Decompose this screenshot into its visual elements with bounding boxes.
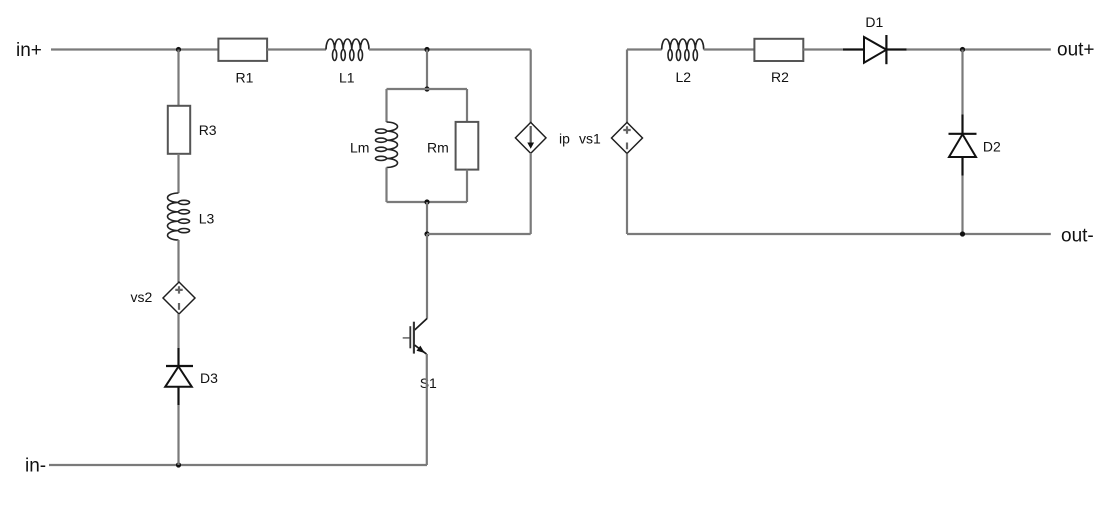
svg-text:Rm: Rm (427, 140, 449, 156)
wire Rm branch upper (466, 89, 468, 122)
resistor R1 (218, 39, 267, 61)
svg-text:in+: in+ (16, 40, 42, 61)
svg-text:D1: D1 (865, 14, 883, 30)
svg-text:out-: out- (1061, 226, 1094, 247)
svg-text:ip: ip (559, 131, 570, 147)
wire parallel section top (387, 88, 468, 90)
diode D3 (165, 348, 193, 405)
inductor Lm (376, 122, 398, 168)
node junction dot bottom left branch (176, 462, 181, 467)
wire R3 to L3 (177, 154, 179, 193)
wire vs2 to D3 (177, 314, 179, 348)
wire L1 to ip branch corner (369, 48, 531, 50)
node junction dot parallel bottom (424, 199, 429, 204)
inductor L2 (662, 39, 704, 61)
svg-text:vs2: vs2 (131, 289, 153, 305)
wire Lm branch upper (385, 89, 387, 122)
wire vs1 top corner (627, 50, 662, 123)
resistor R2 (754, 39, 803, 61)
wire stub down to parallel section (426, 50, 428, 90)
svg-text:out+: out+ (1057, 40, 1095, 61)
svg-text:R1: R1 (236, 70, 254, 86)
wire parallel section bottom (387, 201, 468, 203)
wire in+ node down to R3 (177, 50, 179, 106)
wire Rm branch lower (466, 170, 468, 202)
wire R1 to L1 (267, 48, 326, 50)
wire tie point to ip branch (427, 233, 531, 235)
diode D1 (843, 35, 907, 64)
wire ip branch lower (530, 153, 532, 234)
svg-text:L3: L3 (199, 210, 215, 226)
node junction dot parallel top (424, 86, 429, 91)
wire vs1 bottom (626, 154, 628, 235)
wire ip branch upper (530, 50, 532, 124)
wire D2 branch upper (961, 50, 963, 115)
resistor Rm (456, 122, 479, 170)
svg-text:R3: R3 (199, 122, 217, 138)
inductor L1 (326, 39, 369, 61)
wire parallel bottom to tie point (426, 202, 428, 234)
node junction dot D2 bottom (960, 231, 965, 236)
wire L3 to vs2 (177, 240, 179, 282)
node junction dot at magnetizing branch top (424, 47, 429, 52)
source vs1 (612, 122, 643, 153)
svg-text:L1: L1 (339, 70, 355, 86)
svg-text:D2: D2 (983, 138, 1001, 154)
source vs2 (163, 282, 195, 314)
svg-text:in-: in- (25, 456, 46, 477)
wire in+ to R1 (51, 48, 218, 50)
inductor L3 (168, 193, 190, 240)
svg-text:R2: R2 (771, 69, 789, 85)
wire bottom in- rail (49, 464, 427, 466)
wire D1 to out+ (907, 48, 1051, 50)
wire L2 to R2 (704, 48, 755, 50)
transistor S1 (403, 319, 427, 356)
resistor R3 (168, 106, 190, 154)
wire bottom out- rail (627, 233, 1051, 235)
wire D2 branch lower (961, 176, 963, 235)
node junction dot at R3 branch top (176, 47, 181, 52)
node junction dot tie point (424, 231, 429, 236)
wire S1 emitter down (426, 354, 428, 465)
current source ip (515, 122, 546, 153)
wire D3 to bottom rail (177, 405, 179, 465)
wire down to S1 collector (426, 234, 428, 319)
node junction dot D2 top (960, 47, 965, 52)
svg-text:vs1: vs1 (579, 131, 601, 147)
svg-text:L2: L2 (676, 69, 692, 85)
diode D2 (949, 115, 977, 176)
svg-text:S1: S1 (420, 375, 437, 391)
wire Lm branch lower (385, 168, 387, 203)
svg-text:Lm: Lm (350, 140, 369, 156)
svg-text:D3: D3 (200, 370, 218, 386)
wire R2 to D1 (803, 48, 843, 50)
